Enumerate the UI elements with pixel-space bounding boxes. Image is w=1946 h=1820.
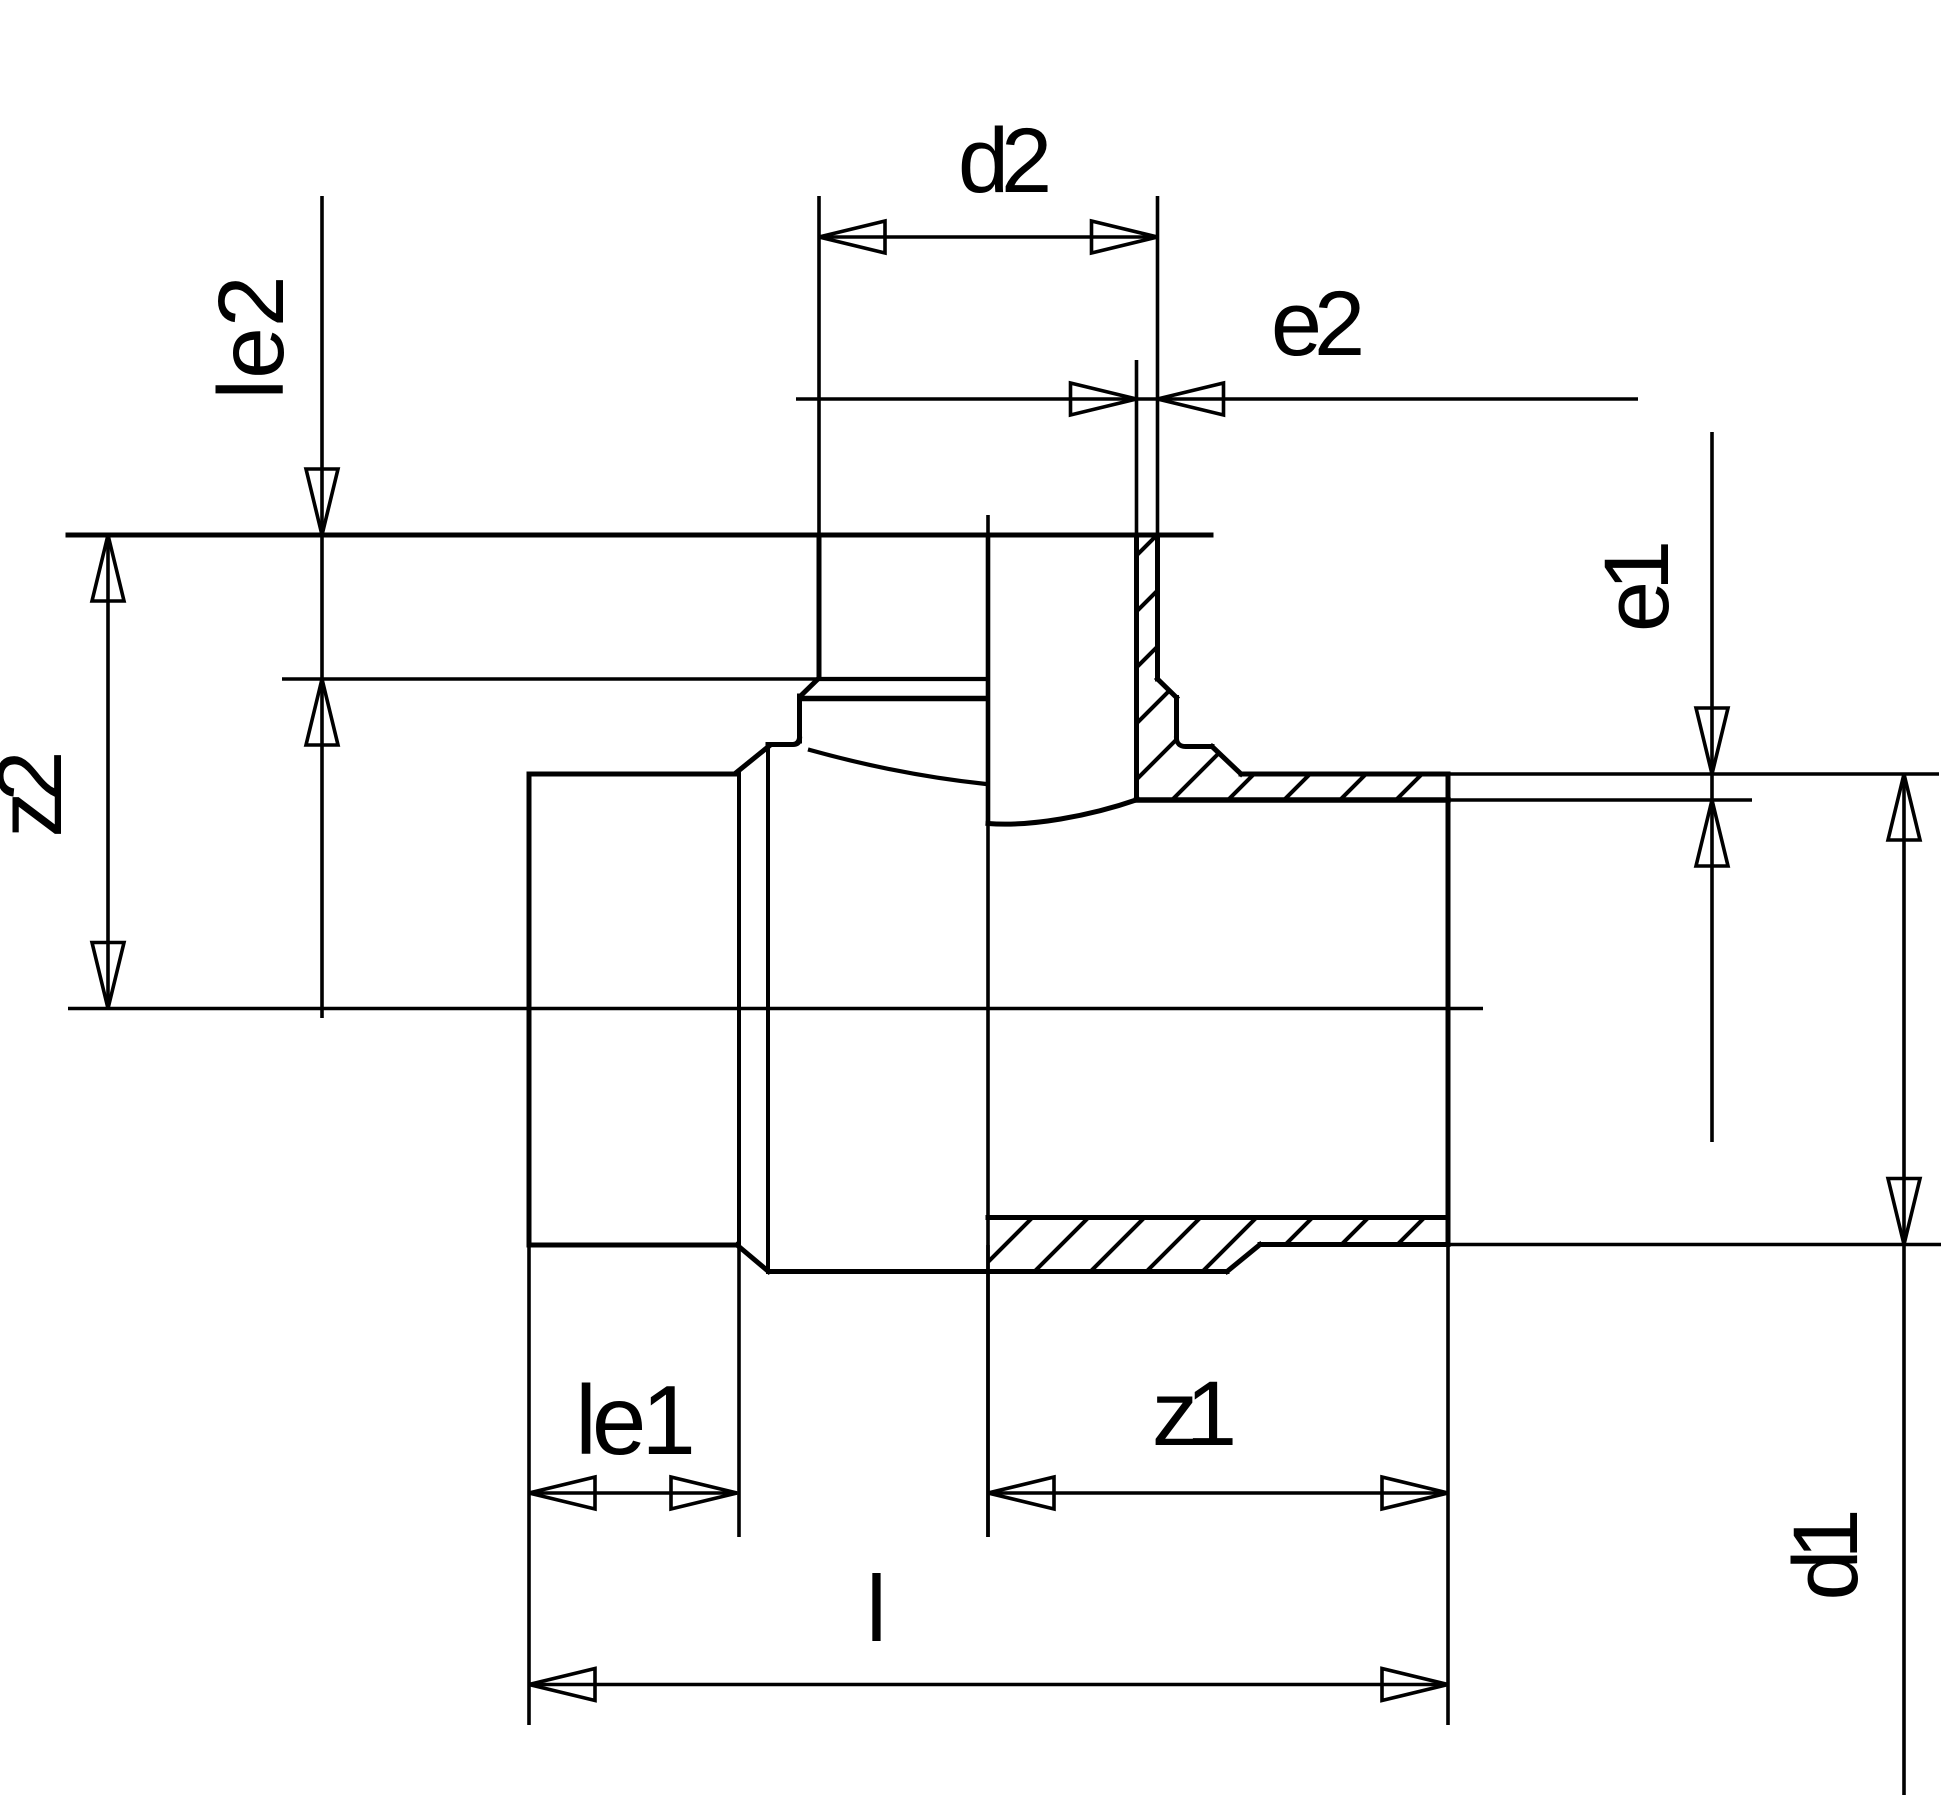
pipe top outer section [1241, 772, 1448, 777]
e2 arrows [1071, 383, 1137, 415]
l dim line [529, 1683, 1448, 1687]
le1 arrows [529, 1477, 595, 1509]
collar outer wall left [797, 696, 802, 741]
d2 dim line [819, 235, 1158, 239]
z1 ext right / l ext right [1446, 1245, 1450, 1726]
d1 dim line [1902, 774, 1906, 1795]
le1 dim line [529, 1491, 737, 1495]
body chamfer top left [737, 747, 769, 773]
e1 dim line [1710, 432, 1714, 1142]
z1 dim line [988, 1491, 1448, 1495]
d2 arrows [819, 221, 885, 253]
branch chamfer left [801, 678, 820, 696]
right end face [1446, 774, 1451, 1245]
branch outer wall right [1155, 535, 1160, 679]
e1 ref bottom ext [1448, 798, 1752, 802]
branch centerline [986, 515, 990, 1537]
hatching upper section [792, 400, 1852, 900]
le2 ref line [282, 677, 819, 681]
z2 dim line [106, 535, 110, 1009]
svg-text:z1: z1 [1152, 1363, 1233, 1465]
fillet arc section [988, 800, 1138, 825]
svg-text:z2: z2 [0, 755, 81, 838]
e1 ref top ext [1448, 772, 1939, 776]
section cut edge on branch centerline [986, 535, 991, 824]
le1 ext left [527, 1245, 531, 1725]
svg-text:le1: le1 [575, 1365, 691, 1475]
svg-text:l: l [866, 1556, 887, 1661]
hatching lower section [950, 900, 1798, 1300]
d1 arrows [1888, 774, 1920, 840]
collar lower shoulder left [768, 739, 800, 745]
left end face [527, 774, 532, 1245]
body bottom outer [769, 1269, 1228, 1274]
d2 ext right [1156, 196, 1160, 535]
d2 ext left [817, 196, 821, 535]
socket top outer left [529, 772, 737, 777]
svg-text:d1: d1 [1775, 1513, 1877, 1601]
collar top edge line [819, 677, 987, 681]
d1 ref bottom ext [1448, 1243, 1941, 1247]
branch top face line [68, 533, 1211, 538]
z1 ext left [986, 1245, 990, 1537]
branch outer wall left [817, 535, 822, 678]
circle edge large [766, 748, 770, 1272]
le2 dim line [320, 196, 324, 1018]
bell outer wall right [1174, 698, 1179, 740]
svg-text:d2: d2 [958, 110, 1048, 212]
svg-text:e1: e1 [1586, 544, 1688, 632]
branch inner wall [1134, 535, 1139, 800]
circle edge small [737, 772, 741, 1245]
z1 arrows [988, 1477, 1054, 1509]
socket bottom outer right [1260, 1242, 1448, 1247]
saddle arc outside [810, 750, 986, 784]
bell shoulder right [1177, 739, 1213, 747]
le1 ext right [737, 1245, 741, 1537]
e2 dim line [796, 397, 1638, 401]
socket bottom outer left [529, 1243, 737, 1248]
svg-text:e2: e2 [1271, 273, 1361, 375]
branch chamfer right [1158, 679, 1177, 698]
l arrows [529, 1669, 595, 1701]
z2 arrows [92, 535, 124, 601]
body chamfer bottom right [1227, 1245, 1260, 1272]
svg-text:le2: le2 [199, 275, 303, 399]
le2 arrows [306, 469, 338, 535]
run centerline [68, 1007, 1483, 1011]
bell chamfer to pipe [1212, 747, 1241, 775]
bore top line [1137, 797, 1449, 803]
body chamfer bottom left [737, 1245, 769, 1272]
e2 ext inner [1135, 360, 1139, 535]
collar top face [800, 696, 987, 702]
e1 arrows [1696, 708, 1728, 774]
bore bottom line [988, 1215, 1448, 1220]
